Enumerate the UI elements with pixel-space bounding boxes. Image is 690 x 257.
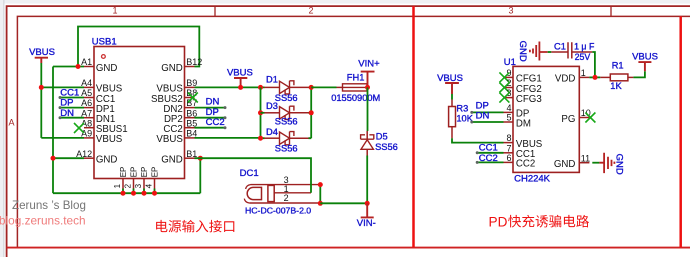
svg-text:CH224K: CH224K [514, 174, 551, 185]
svg-text:Zeruns ’s Blog: Zeruns ’s Blog [12, 199, 86, 212]
pin B12 GND [185, 66, 195, 68]
svg-text:FH1: FH1 [347, 72, 365, 82]
svg-text:USB1: USB1 [92, 36, 117, 47]
wire GND A12 [53, 157, 84, 159]
pin A1 GND [84, 66, 94, 68]
wire down to D5 [367, 87, 369, 131]
junction VIN+ [365, 85, 370, 90]
net label CC1 [60, 97, 84, 99]
svg-text:EP: EP [130, 167, 139, 178]
svg-text:A9: A9 [81, 129, 92, 139]
pin B1 GND [185, 157, 195, 159]
pin 9 CFG1 [504, 76, 514, 78]
svg-text:1 μ F: 1 μ F [574, 41, 595, 51]
svg-text:VBUS: VBUS [96, 134, 123, 145]
pin EP 1 [122, 179, 124, 189]
wire gnd to C1 [548, 51, 552, 53]
diode D3 SS56 [264, 112, 279, 114]
svg-text:GND: GND [96, 155, 118, 166]
wire B1 to DC1 pin1 [195, 158, 312, 193]
pin 1 VDD [579, 76, 589, 78]
svg-text:A4: A4 [81, 78, 92, 88]
junction anode D4 [258, 136, 263, 141]
power flag VBUS (right) [638, 62, 651, 71]
svg-text:11: 11 [581, 153, 590, 163]
wire GND top loop [78, 27, 199, 67]
pin B8 SBUS2 [185, 97, 195, 99]
net label DN [60, 117, 84, 119]
svg-text:1K: 1K [610, 81, 622, 91]
junction A1/loop [76, 64, 81, 69]
pin 1 [274, 192, 311, 194]
svg-text:GND: GND [517, 41, 528, 62]
resistor R1 1K [600, 76, 610, 78]
junction VBUS/A4 [39, 85, 44, 90]
svg-text:EP: EP [119, 167, 128, 178]
no-connect X A8 [74, 123, 84, 133]
wire pin11 to gnd [592, 162, 599, 164]
wire D5 to VIN- rail [366, 156, 368, 204]
svg-text:8: 8 [506, 133, 511, 143]
wire pin3 to pin2 [319, 185, 321, 204]
svg-text:SS56: SS56 [275, 143, 298, 153]
junction A12 [51, 156, 56, 161]
svg-text:PG: PG [561, 114, 575, 125]
wire GND A1 [53, 66, 84, 68]
wire flag to R3 [451, 94, 453, 100]
svg-text:GND: GND [161, 63, 183, 74]
svg-text:PD: PD [489, 214, 508, 229]
pin A9 VBUS [84, 137, 94, 139]
svg-text:1: 1 [113, 183, 122, 188]
svg-text:D1: D1 [266, 75, 278, 85]
svg-text:A12: A12 [76, 149, 92, 159]
net label CC2 [477, 161, 503, 163]
net label CC1 [477, 152, 503, 154]
svg-text:R3: R3 [456, 103, 468, 113]
pin 2 [249, 202, 320, 204]
section divider x=680 [679, 16, 682, 247]
svg-text:GND: GND [554, 159, 576, 170]
svg-text:SS56: SS56 [275, 116, 298, 126]
pin B9 VBUS [185, 86, 195, 88]
pin 7 CC1 [504, 152, 514, 154]
svg-text:A: A [8, 118, 14, 128]
svg-text:D3: D3 [266, 101, 278, 111]
svg-text:blog.zeruns.tech: blog.zeruns.tech [0, 213, 86, 227]
wire R1 to VBUS flag [633, 71, 645, 77]
pin 10 PG [579, 117, 589, 119]
svg-text:3: 3 [508, 6, 513, 16]
pin 4 DP [504, 111, 514, 113]
wire D3 anode stub [261, 112, 265, 114]
fuse FH1 [337, 86, 343, 88]
svg-text:D5: D5 [376, 132, 388, 142]
svg-text:01550900M: 01550900M [331, 93, 380, 103]
pin 8 VBUS [504, 142, 514, 144]
svg-text:VBUS: VBUS [29, 47, 55, 58]
net label DN [195, 107, 226, 109]
wire R3 to pin8 [452, 138, 504, 142]
wire VDD node [589, 76, 600, 78]
wire VBUS rail [40, 63, 42, 138]
pin A12 GND [84, 157, 94, 159]
svg-text:R1: R1 [612, 61, 624, 71]
junction anode D3 [258, 110, 263, 115]
pin EP 3 [143, 179, 145, 189]
svg-text:CC2: CC2 [479, 153, 498, 164]
svg-text:VIN+: VIN+ [358, 58, 380, 69]
pin 3 CFG3 [504, 97, 514, 99]
diode D1 SS56 [264, 86, 279, 88]
junction VDD [593, 75, 598, 80]
svg-text:C1: C1 [554, 41, 566, 51]
svg-text:6: 6 [506, 153, 511, 163]
svg-text:DM: DM [516, 118, 531, 129]
junction VBUS flag [238, 85, 243, 90]
pin EP 4 [154, 179, 156, 189]
power flag VIN- [361, 203, 374, 217]
svg-text:2: 2 [308, 6, 313, 16]
wire VIN- rail [320, 202, 367, 204]
frame tick x=611 [610, 6, 612, 16]
svg-text:A1: A1 [81, 57, 92, 67]
svg-text:VBUS: VBUS [156, 134, 183, 145]
junction pin3 [318, 182, 323, 187]
svg-text:CFG3: CFG3 [516, 94, 542, 105]
section divider x=413 [412, 6, 415, 247]
junction pin2 [318, 201, 323, 206]
resistor R3 10K [451, 100, 453, 107]
wire B9 to D1 [195, 86, 265, 88]
svg-text:D4: D4 [266, 127, 278, 137]
no-connect X B8 [188, 93, 198, 103]
pin B5 CC2 [185, 127, 195, 129]
pin A5 CC1 [84, 97, 94, 99]
svg-text:25V: 25V [575, 52, 591, 62]
wire C1 to VDD node [592, 52, 595, 77]
net label DP [60, 107, 84, 109]
junction VIN- [365, 201, 370, 206]
svg-text:1: 1 [112, 6, 117, 16]
capacitor C1 1uF 25V [551, 42, 592, 58]
wire B4 to D4 [195, 137, 265, 139]
svg-text:1: 1 [581, 68, 586, 78]
svg-text:EP: EP [151, 167, 160, 178]
pin B6 DP2 [185, 117, 195, 119]
wire VBUS to A9 [41, 137, 84, 139]
diode D5 SS56 (vertical) [366, 131, 368, 139]
pin 11 GND [579, 162, 589, 164]
svg-text:SS56: SS56 [375, 142, 398, 152]
frame tick x=215 [214, 6, 216, 16]
caption 电源输入接口 [156, 220, 167, 232]
svg-text:GND: GND [96, 63, 118, 74]
svg-text:2: 2 [284, 193, 289, 203]
svg-text:DC1: DC1 [240, 168, 259, 179]
pin B7 DN2 [185, 107, 195, 109]
svg-text:B12: B12 [186, 57, 202, 67]
svg-text:DN: DN [476, 111, 490, 122]
pin EP 2 [133, 179, 135, 189]
wire GND left rail [52, 67, 54, 194]
wire cathode bus [309, 87, 312, 138]
frame bottom line [7, 247, 690, 249]
wire anode bus [260, 87, 262, 138]
svg-text:CC2: CC2 [516, 159, 535, 170]
svg-text:VDD: VDD [555, 74, 575, 85]
svg-text:7: 7 [506, 143, 511, 153]
svg-text:GND: GND [161, 155, 183, 166]
pin A7 DN1 [84, 117, 94, 119]
svg-text:SS56: SS56 [275, 93, 298, 103]
svg-text:HC-DC-007B-2.0: HC-DC-007B-2.0 [245, 205, 311, 215]
wire GND B1 vertical [199, 158, 201, 193]
svg-text:VBUS: VBUS [227, 68, 253, 79]
net label CC2 [195, 127, 226, 129]
svg-text:4: 4 [506, 103, 511, 113]
svg-text:EP: EP [140, 167, 149, 178]
pin 6 CC2 [504, 161, 514, 163]
pin B4 VBUS [185, 137, 195, 139]
wire GND EP rail [53, 192, 200, 194]
pin A8 SBUS1 [84, 127, 94, 129]
svg-text:VBUS: VBUS [632, 52, 658, 63]
net label DP [195, 117, 226, 119]
svg-text:4: 4 [145, 183, 154, 188]
pin A6 DP1 [84, 107, 94, 109]
pin 3 [251, 184, 321, 186]
wire VBUS to A4 [41, 86, 84, 88]
svg-text:GND: GND [613, 154, 624, 175]
wire to fuse [311, 86, 336, 88]
net label DP [472, 111, 504, 113]
junction cathode D1 [309, 85, 314, 90]
pin A4 VBUS [84, 86, 94, 88]
ground symbol (bottom right) [599, 153, 614, 173]
pin 2 CFG2 [504, 87, 514, 89]
net label DN [472, 121, 504, 123]
pin 5 DM [504, 121, 514, 123]
svg-text:VIN-: VIN- [357, 218, 376, 229]
svg-text:5: 5 [506, 113, 511, 123]
diode D4 SS56 [264, 137, 279, 139]
junction anode bus top [258, 85, 263, 90]
svg-text:DN: DN [60, 108, 74, 119]
junction B1 [198, 156, 203, 161]
junction cathode D3 [309, 110, 314, 115]
svg-text:2: 2 [124, 183, 133, 188]
svg-text:CC2: CC2 [206, 117, 225, 128]
svg-text:3: 3 [134, 183, 143, 188]
